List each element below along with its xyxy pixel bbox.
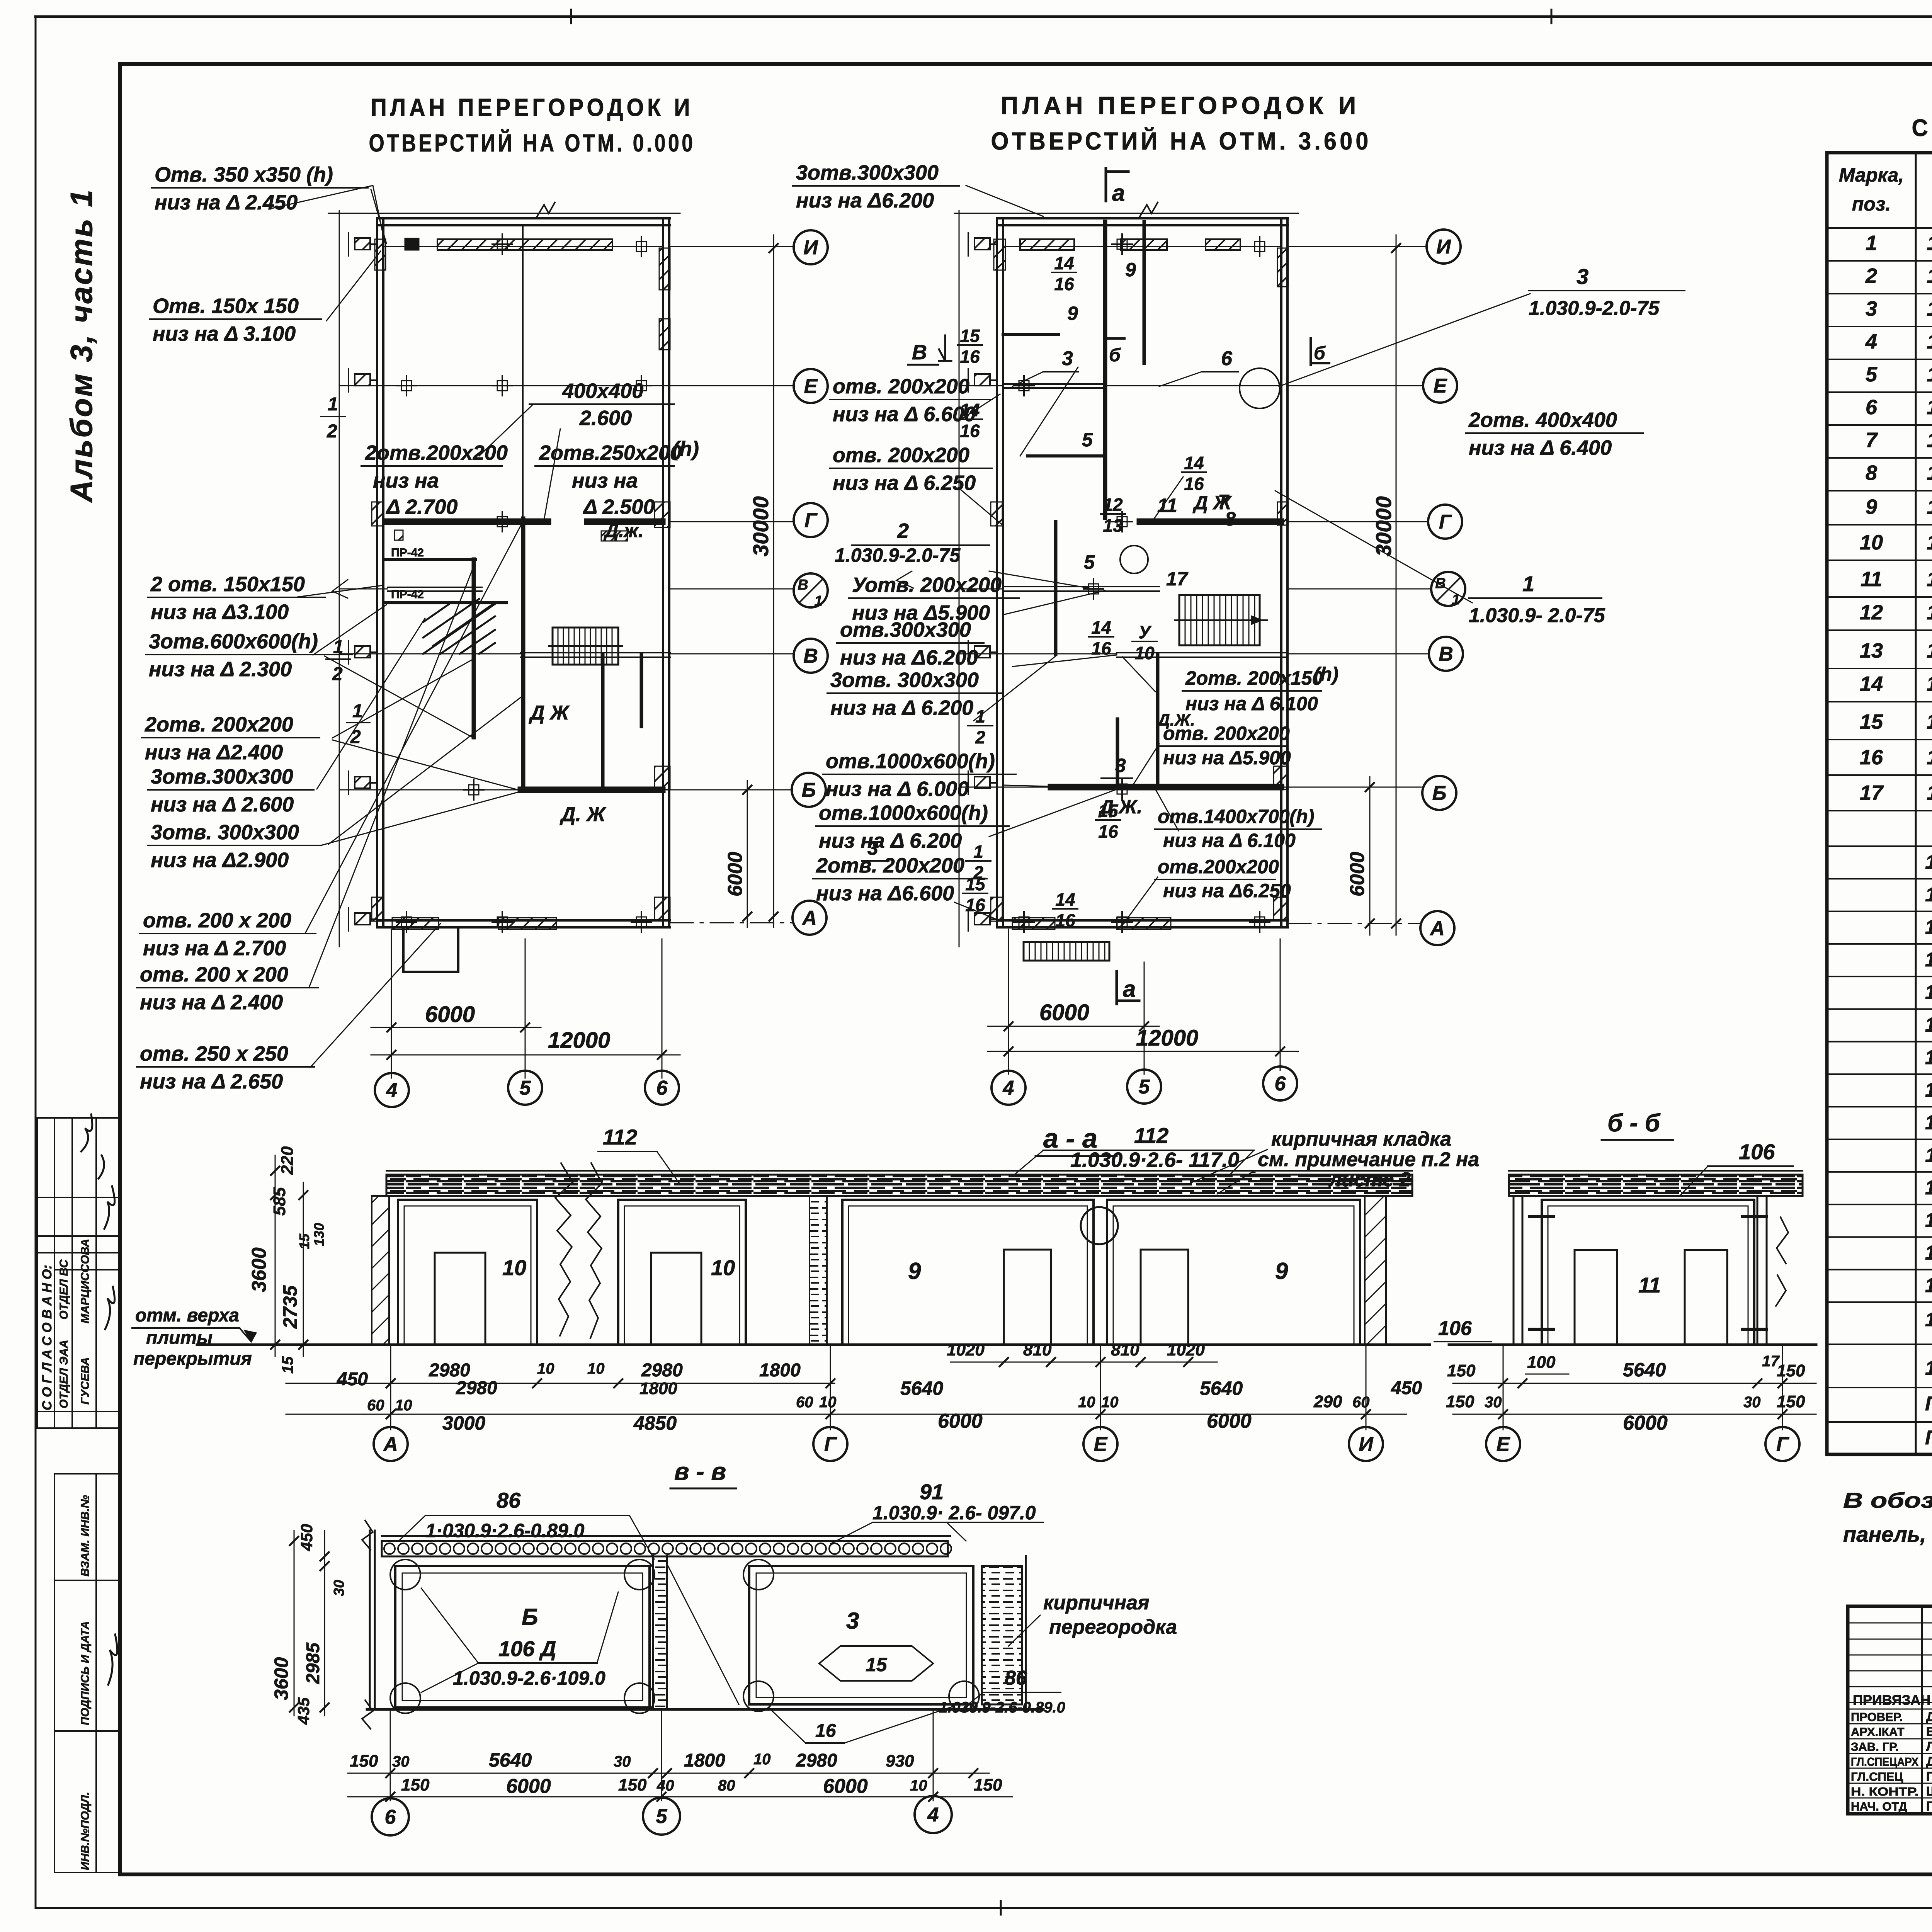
- plan1 grid bubble В1: [794, 573, 828, 607]
- plan1 grid bubble Е: [794, 369, 828, 403]
- svg-text:1.030.9-2.7-2-0.19.0-02: 1.030.9-2.7-2-0.19.0-02: [1925, 1079, 1932, 1101]
- spec row МС −91: [1827, 1236, 1932, 1238]
- svg-text:5: 5: [520, 1077, 531, 1099]
- section a-a door in panel 10b: [651, 1253, 701, 1345]
- svg-text:низ на Δ 6.250: низ на Δ 6.250: [833, 471, 976, 495]
- plan2 bottom wall hatch segments: [1012, 918, 1055, 929]
- svg-text:И: И: [1359, 1433, 1374, 1456]
- svg-text:80: 80: [718, 1777, 735, 1794]
- svg-text:4: 4: [1003, 1077, 1014, 1099]
- svg-text:отв. 200 х 200: отв. 200 х 200: [140, 963, 288, 986]
- svg-text:отв.300х300: отв.300х300: [840, 618, 971, 641]
- svg-text:(h): (h): [672, 437, 699, 461]
- dim 3600 rot: [248, 1247, 270, 1292]
- svg-text:14: 14: [1054, 253, 1074, 273]
- section a-a bubble И: [1349, 1427, 1383, 1461]
- svg-text:ВЗАМ. ИНВ.№: ВЗАМ. ИНВ.№: [79, 1495, 92, 1577]
- section b-b dim row2: [1453, 1414, 1816, 1415]
- svg-text:А: А: [383, 1433, 398, 1456]
- svg-text:810: 810: [1111, 1340, 1139, 1359]
- svg-text:10: 10: [711, 1255, 735, 1280]
- svg-text:отм. верха: отм. верха: [135, 1305, 239, 1326]
- svg-text:низ на Δ 2.450: низ на Δ 2.450: [155, 191, 298, 214]
- section a-a floor line: [197, 1344, 1430, 1346]
- plan2 grid bubble И: [1427, 230, 1461, 264]
- svg-text:17: 17: [1860, 781, 1884, 804]
- svg-text:16: 16: [960, 421, 980, 441]
- svg-text:кирпичная кладка: кирпичная кладка: [1271, 1128, 1451, 1150]
- plan1 bottom protrusion: [403, 927, 458, 972]
- svg-text:15: 15: [279, 1356, 296, 1374]
- title block left rows grid: [1848, 1622, 1932, 1624]
- svg-text:30: 30: [392, 1753, 410, 1770]
- svg-text:6: 6: [385, 1806, 396, 1828]
- spec row 2: [1827, 293, 1932, 294]
- spec row 7: [1827, 457, 1932, 459]
- text OTDEL EAA: [58, 1340, 70, 1408]
- section b-b right edge lines: [1757, 1196, 1759, 1345]
- svg-text:ГЛ.СПЕЦ: ГЛ.СПЕЦ: [1851, 1770, 1903, 1783]
- svg-text:106 Д: 106 Д: [498, 1636, 556, 1661]
- svg-text:6000: 6000: [1039, 1000, 1089, 1025]
- svg-text:НАЧ. ОТД: НАЧ. ОТД: [1851, 1800, 1907, 1813]
- svg-text:1.030.9-2.7-2-0.19.0-03: 1.030.9-2.7-2-0.19.0-03: [1925, 1112, 1932, 1134]
- svg-text:150: 150: [618, 1776, 647, 1794]
- svg-text:а: а: [1112, 180, 1125, 206]
- album spine text: [64, 188, 99, 503]
- spec row bolt: [1827, 1421, 1932, 1423]
- section b flag left: [1105, 336, 1107, 363]
- svg-text:150: 150: [1777, 1392, 1805, 1411]
- svg-text:7: 7: [1866, 429, 1878, 452]
- svg-text:15: 15: [960, 326, 980, 346]
- svg-text:ГЛ.СПЕЦАРХ: ГЛ.СПЕЦАРХ: [1851, 1755, 1918, 1769]
- svg-text:10: 10: [753, 1751, 771, 1768]
- svg-text:1.030.9-2.1-04.0: 1.030.9-2.1-04.0: [1927, 568, 1932, 591]
- svg-text:1.030.9 - 2.1- 01.0: 1.030.9 - 2.1- 01.0: [1927, 461, 1932, 485]
- svg-text:1.030.9-2.1-08.0: 1.030.9-2.1-08.0: [1927, 639, 1932, 662]
- svg-text:16: 16: [1054, 274, 1074, 294]
- svg-text:3отв.300х300: 3отв.300х300: [151, 765, 293, 788]
- svg-text:13: 13: [1860, 639, 1883, 662]
- svg-text:Δ 2.700: Δ 2.700: [386, 495, 457, 519]
- svg-text:2980: 2980: [456, 1378, 497, 1398]
- svg-text:16: 16: [815, 1721, 836, 1741]
- section b-b dim row1: [1453, 1383, 1816, 1384]
- plan1 bottom grid bubble 4: [375, 1073, 409, 1107]
- spec row 3: [1827, 326, 1932, 327]
- plan2 left survey line: [959, 211, 960, 947]
- svg-text:перекрытия: перекрытия: [133, 1349, 252, 1369]
- svg-text:2отв. 200х200: 2отв. 200х200: [816, 854, 964, 877]
- plan2 wall Б heavy: [1051, 784, 1281, 791]
- svg-text:отв. 200х200: отв. 200х200: [833, 375, 969, 398]
- plan2 bottom grid bubble 6: [1263, 1066, 1297, 1100]
- svg-text:низ на Δ3.100: низ на Δ3.100: [151, 600, 289, 624]
- svg-text:30000: 30000: [748, 496, 773, 556]
- svg-text:И: И: [1436, 236, 1451, 258]
- svg-text:5: 5: [1084, 551, 1095, 573]
- plan2 bottom grid bubble 4: [992, 1071, 1026, 1105]
- spec row 1: [1827, 260, 1932, 262]
- svg-text:2 отв. 150х150: 2 отв. 150х150: [150, 573, 305, 596]
- svg-text:низ на Δ6.200: низ на Δ6.200: [840, 646, 978, 669]
- section a-a slab band: [386, 1175, 1412, 1196]
- leader right 1: [1275, 491, 1472, 603]
- svg-text:91: 91: [920, 1480, 944, 1504]
- svg-text:11: 11: [1638, 1273, 1661, 1297]
- svg-text:а: а: [1123, 976, 1136, 1002]
- plan1 room walls upper-left: [383, 558, 475, 561]
- svg-text:ОТДЕЛ ЭАА: ОТДЕЛ ЭАА: [58, 1340, 70, 1408]
- svg-text:низ на Δ 6.000: низ на Δ 6.000: [826, 777, 969, 801]
- plan2 dim 6000 vertical: [1369, 777, 1371, 935]
- section a-a panel 9 first: [842, 1200, 1094, 1345]
- svg-text:930: 930: [886, 1752, 914, 1770]
- svg-text:4850: 4850: [633, 1412, 677, 1434]
- section a-a left dim vertical line 2: [303, 1182, 304, 1356]
- svg-text:Н. КОНТР.: Н. КОНТР.: [1851, 1785, 1918, 1798]
- plan2 bottom dim line 12000: [988, 1051, 1298, 1052]
- leader kirpichnaya: [1190, 1150, 1267, 1194]
- svg-text:1.030.9- 2.1- 06.0: 1.030.9- 2.1- 06.0: [1927, 495, 1932, 519]
- plan1 grid line А dashdot to bubble: [670, 922, 793, 923]
- spec row 17: [1827, 810, 1932, 811]
- svg-text:низ на Δ 2.600: низ на Δ 2.600: [151, 793, 294, 816]
- svg-text:5: 5: [1866, 363, 1878, 386]
- section b-b right zigzag: [1776, 1217, 1788, 1306]
- svg-text:810: 810: [1023, 1340, 1052, 1359]
- svg-text:6000: 6000: [1346, 852, 1369, 896]
- section b-b left edge lines: [1513, 1196, 1515, 1345]
- svg-text:6: 6: [1275, 1073, 1286, 1095]
- svg-text:1.030.9-2.1 - 07.0: 1.030.9-2.1 - 07.0: [1927, 363, 1932, 386]
- plan2 dim 30000 vertical line: [1396, 235, 1397, 935]
- svg-text:30: 30: [331, 1580, 347, 1596]
- svg-text:МАРЦИССОВА: МАРЦИССОВА: [79, 1239, 92, 1323]
- svg-text:1: 1: [814, 593, 822, 609]
- section v-v floor line: [367, 1708, 1043, 1711]
- plan1 lintel solid block: [405, 238, 419, 250]
- plan2 grid bubble Б: [1422, 776, 1456, 810]
- plan1 wall В thin: [521, 652, 670, 653]
- svg-text:низ на Δ 6.200: низ на Δ 6.200: [830, 696, 973, 719]
- svg-text:9: 9: [1067, 303, 1078, 324]
- plan2 outer wall right: [1280, 218, 1282, 927]
- text PODPIS I DATA: [79, 1621, 92, 1725]
- svg-text:60: 60: [796, 1394, 813, 1411]
- section a-a bubble Г: [813, 1427, 847, 1461]
- svg-text:низ на Δ 2.300: низ на Δ 2.300: [149, 658, 292, 681]
- left strip: soglasovano box grid: [37, 1117, 120, 1119]
- left strip: inv boxes grid: [54, 1473, 120, 1475]
- section v-v left dim stack: [294, 1531, 295, 1716]
- plan2 stair upper: [1179, 595, 1260, 645]
- svg-text:86: 86: [497, 1488, 521, 1512]
- section a-a bubble Е: [1083, 1427, 1117, 1461]
- svg-text:низ на Δ 2.700: низ на Δ 2.700: [143, 937, 286, 960]
- plan2 grid bubble В: [1429, 637, 1463, 671]
- svg-text:6000: 6000: [1207, 1410, 1252, 1432]
- plan2 section mark a top: [1105, 168, 1107, 201]
- svg-text:3: 3: [846, 1608, 859, 1634]
- svg-text:60: 60: [367, 1397, 384, 1414]
- svg-text:низ на Δ 6.400: низ на Δ 6.400: [1469, 436, 1612, 459]
- svg-text:Д Ж: Д Ж: [529, 702, 570, 724]
- svg-text:150: 150: [401, 1776, 430, 1794]
- plan1 dim 30000 vertical line: [773, 235, 774, 927]
- svg-text:8: 8: [1866, 461, 1877, 485]
- plan2 grid line Г to bubble: [1288, 521, 1428, 522]
- section a-a left dim vertical line: [275, 1155, 276, 1356]
- leader right 3: [1279, 294, 1530, 386]
- svg-text:1: 1: [328, 394, 338, 415]
- title block vertical lines left part: [1921, 1606, 1923, 1814]
- section a-a slab top line: [386, 1170, 1412, 1172]
- svg-text:15: 15: [866, 1654, 888, 1675]
- plan2 interior wall v4: [1156, 654, 1160, 787]
- svg-text:низ на Δ 3.100: низ на Δ 3.100: [153, 322, 296, 345]
- svg-text:6000: 6000: [938, 1410, 983, 1432]
- spec row МС −15: [1827, 1106, 1932, 1107]
- spec row 12: [1827, 629, 1932, 631]
- svg-text:5640: 5640: [489, 1749, 532, 1771]
- plan1 interior line upper half: [522, 226, 524, 519]
- podpis squiggle: [108, 1634, 117, 1685]
- svg-text:1: 1: [1866, 231, 1877, 255]
- plan2 dim text 6000 vertical: [1346, 852, 1369, 896]
- plan1 И lintel line: [383, 246, 662, 247]
- svg-text:ГОСТ 11371-78.: ГОСТ 11371-78.: [1925, 1427, 1932, 1449]
- svg-text:АРХ.IКАТ: АРХ.IКАТ: [1851, 1725, 1905, 1739]
- svg-text:1.030.9· 2.6- 097.0: 1.030.9· 2.6- 097.0: [872, 1502, 1036, 1524]
- svg-text:б: б: [1314, 343, 1326, 364]
- spec row МС −107: [1827, 1301, 1932, 1303]
- spec row МС −12: [1827, 1041, 1932, 1043]
- plan1 grid line Г to bubble: [670, 521, 794, 522]
- plan1 right wall hatch segments: [659, 248, 670, 290]
- title block signature rows: [1848, 1709, 1932, 1710]
- plan2 grid line В1 to bubble: [1288, 588, 1431, 590]
- svg-text:ПР-42: ПР-42: [391, 546, 424, 559]
- svg-text:1.030.9·2.6- 117.0: 1.030.9·2.6- 117.0: [1070, 1148, 1239, 1172]
- plan1 interior wall v1: [472, 560, 476, 737]
- svg-text:10: 10: [502, 1255, 526, 1280]
- svg-text:Г: Г: [1439, 511, 1452, 533]
- svg-text:3отв.300х300: 3отв.300х300: [796, 161, 939, 184]
- plan2 lintel hatches top wall: [1020, 239, 1074, 250]
- svg-text:низ на Δ5.900: низ на Δ5.900: [1163, 747, 1291, 769]
- svg-text:2отв. 200х200: 2отв. 200х200: [145, 713, 293, 736]
- svg-text:СПЕЦИФИКАЦИЯ ПЕРЕГОРОДОК: СПЕЦИФИКАЦИЯ ПЕРЕГОРОДОК: [1912, 115, 1932, 141]
- plan1 bottom dim line 6000: [371, 1027, 541, 1028]
- svg-text:585: 585: [270, 1187, 289, 1216]
- svg-text:ПОДПИСЬ И ДАТА: ПОДПИСЬ И ДАТА: [79, 1621, 92, 1725]
- svg-text:10: 10: [1860, 531, 1883, 554]
- plan1 lintel hatch over top wall: [437, 239, 612, 250]
- svg-text:Д.ж.: Д.ж.: [603, 520, 644, 541]
- plan2 anchor flags on left wall: [975, 238, 990, 250]
- svg-text:4: 4: [386, 1079, 398, 1102]
- spec row sterzhen armaturny: [1827, 1344, 1932, 1345]
- plan1 left wall hatch segments: [375, 239, 386, 270]
- plan1 label leaders bundle: [298, 522, 523, 1066]
- svg-text:16: 16: [1098, 821, 1118, 842]
- svg-text:220: 220: [278, 1146, 297, 1175]
- svg-text:17: 17: [1166, 568, 1189, 590]
- svg-text:(h): (h): [1314, 663, 1338, 685]
- plan2 break mark top: [1140, 202, 1158, 216]
- svg-text:2: 2: [332, 664, 343, 684]
- svg-text:Альбом 3, часть 1: Альбом 3, часть 1: [64, 188, 99, 503]
- plan1 wall Г heavy: [388, 519, 548, 525]
- plan1 stair: [553, 628, 618, 665]
- section a-a bubble А: [374, 1427, 408, 1461]
- plan2 wall Г heavy: [1140, 519, 1281, 525]
- text VZAM INV: [79, 1495, 92, 1577]
- plan1 outer wall top: [377, 217, 670, 219]
- svg-text:86: 86: [1005, 1667, 1027, 1689]
- plan1 grid bubble А: [793, 901, 827, 935]
- spec row 6: [1827, 424, 1932, 426]
- svg-text:2: 2: [327, 421, 337, 442]
- svg-text:В обозначении перегородок на п: В обозначении перегородок на плане в чис…: [1843, 1488, 1932, 1512]
- section a-a dim row1 left: [286, 1383, 835, 1384]
- spec row МС −11: [1827, 1008, 1932, 1010]
- strip signatures squiggles: [81, 1114, 115, 1329]
- plan2 partition y870: [1003, 333, 1059, 336]
- section a-a gap hatch column near Г: [810, 1196, 827, 1345]
- spec row МС −66: [1827, 1204, 1932, 1205]
- svg-text:9: 9: [908, 1258, 921, 1284]
- section a-a door in panel 10a: [435, 1253, 485, 1345]
- svg-text:1.030.9-2.7-2-0.00.252: 1.030.9-2.7-2-0.00.252: [1925, 1309, 1932, 1330]
- text SOGLASOVANO: [40, 1265, 54, 1410]
- spec row 15: [1827, 739, 1932, 740]
- svg-text:5640: 5640: [1200, 1378, 1243, 1399]
- svg-text:5: 5: [1139, 1076, 1150, 1098]
- svg-text:2980: 2980: [641, 1360, 683, 1381]
- svg-text:низ на: низ на: [572, 469, 638, 492]
- plan1 outer wall right: [662, 218, 664, 927]
- svg-text:6000: 6000: [724, 852, 747, 896]
- svg-text:10: 10: [587, 1360, 605, 1377]
- svg-text:11761.00.00 .000: 11761.00.00 .000: [1925, 1357, 1932, 1379]
- plan2 grid line А dashdot: [1288, 923, 1420, 924]
- section v-v panel B: [395, 1566, 650, 1708]
- section b-b extension verticals: [1503, 1345, 1504, 1430]
- svg-text:3отв. 300х300: 3отв. 300х300: [830, 668, 979, 692]
- svg-text:11: 11: [1861, 568, 1882, 591]
- svg-text:290: 290: [1313, 1392, 1342, 1411]
- page border left line: [35, 17, 37, 1908]
- spec row МС − 14: [1827, 1073, 1932, 1075]
- plan2 interior grid thin lines: [959, 385, 1003, 386]
- svg-text:низ на Δ 2.650: низ на Δ 2.650: [140, 1070, 283, 1093]
- svg-text:1.030.9-2.1-11.0-01: 1.030.9-2.1-11.0-01: [1927, 746, 1932, 769]
- spec row МС − 16: [1827, 1171, 1932, 1173]
- section a-a dim row2: [286, 1414, 1406, 1415]
- section a-a right brick column: [1365, 1196, 1386, 1345]
- panel B corner circles: [390, 1560, 420, 1590]
- svg-text:9: 9: [1275, 1258, 1288, 1284]
- svg-text:150: 150: [1447, 1361, 1476, 1380]
- plan2 wall В thin: [1117, 652, 1288, 653]
- svg-text:низ на Δ6.200: низ на Δ6.200: [796, 189, 934, 212]
- plan1 interior grid thin lines: [339, 385, 670, 386]
- svg-text:16: 16: [965, 895, 985, 915]
- svg-text:поз.: поз.: [1852, 193, 1891, 215]
- svg-text:Отв. 350 х350 (h): Отв. 350 х350 (h): [155, 163, 333, 186]
- plan1 grid bubble И: [794, 230, 828, 264]
- svg-text:низ на Δ 6.200: низ на Δ 6.200: [819, 829, 962, 852]
- svg-text:ПЛАН ПЕРЕГОРОДОК И: ПЛАН ПЕРЕГОРОДОК И: [371, 94, 694, 121]
- svg-text:2отв. 200х150: 2отв. 200х150: [1185, 667, 1323, 689]
- svg-text:кирпичная: кирпичная: [1043, 1592, 1150, 1614]
- plan2 grid bubble Е: [1423, 369, 1457, 403]
- svg-text:2: 2: [350, 727, 361, 747]
- svg-text:5: 5: [656, 1805, 668, 1828]
- svg-text:в - в: в - в: [674, 1458, 726, 1485]
- svg-text:Б: Б: [1432, 782, 1447, 804]
- svg-text:450: 450: [1391, 1378, 1422, 1398]
- svg-text:13: 13: [1103, 515, 1123, 536]
- leader top plan2: [966, 185, 1043, 216]
- svg-text:1: 1: [1522, 571, 1534, 596]
- svg-text:400х400: 400х400: [562, 379, 643, 403]
- leader 150x150: [327, 251, 381, 321]
- plan1 grid line В to bubble: [670, 653, 794, 655]
- svg-text:перегородка: перегородка: [1049, 1616, 1177, 1638]
- plan2 grid bubble Г: [1428, 505, 1462, 539]
- svg-text:В: В: [1439, 643, 1453, 665]
- spec row МС −3: [1827, 911, 1932, 912]
- svg-text:9: 9: [1125, 259, 1136, 281]
- section a-a panel 10 second: [618, 1200, 746, 1345]
- section b-b door a: [1575, 1250, 1617, 1345]
- svg-text:106: 106: [1739, 1139, 1775, 1164]
- svg-text:14: 14: [1184, 453, 1204, 473]
- section v-v dim row2: [348, 1796, 1012, 1798]
- svg-text:Е: Е: [804, 375, 818, 398]
- midcol leaders: [896, 394, 1117, 922]
- svg-text:10: 10: [910, 1777, 927, 1794]
- panel B inner leaders: [421, 1588, 618, 1692]
- svg-text:3600: 3600: [248, 1247, 270, 1292]
- plan2 grid line Е to bubble: [1288, 385, 1423, 386]
- title block outer frame: [1848, 1606, 1932, 1814]
- svg-text:ОТВЕРСТИЙ НА ОТМ. 3.600: ОТВЕРСТИЙ НА ОТМ. 3.600: [991, 127, 1372, 155]
- svg-text:1.030.9-2.7-2-0.16.0-02: 1.030.9-2.7-2-0.16.0-02: [1925, 916, 1932, 939]
- svg-text:1: 1: [973, 842, 983, 862]
- svg-text:ПР-42: ПР-42: [391, 588, 424, 601]
- svg-text:15: 15: [296, 1233, 312, 1249]
- svg-text:отв.1000х600(h): отв.1000х600(h): [826, 750, 995, 773]
- section b-b slab band: [1509, 1175, 1803, 1196]
- svg-text:2: 2: [1865, 264, 1877, 287]
- svg-text:30: 30: [1485, 1394, 1502, 1411]
- section a-a detail circle at E: [1081, 1207, 1118, 1244]
- svg-text:1·030.9·2.6-0.89.0: 1·030.9·2.6-0.89.0: [425, 1520, 585, 1541]
- svg-text:5: 5: [1082, 429, 1093, 451]
- svg-text:Е: Е: [1497, 1433, 1510, 1456]
- svg-text:Уотв. 200х200: Уотв. 200х200: [852, 573, 1002, 597]
- svg-text:см. примечание п.2 на: см. примечание п.2 на: [1258, 1148, 1479, 1171]
- spec table column lines: [1915, 153, 1917, 1454]
- plan2 interior wall v1: [1103, 222, 1107, 518]
- svg-text:30: 30: [614, 1753, 631, 1770]
- svg-text:Г: Г: [824, 1433, 837, 1456]
